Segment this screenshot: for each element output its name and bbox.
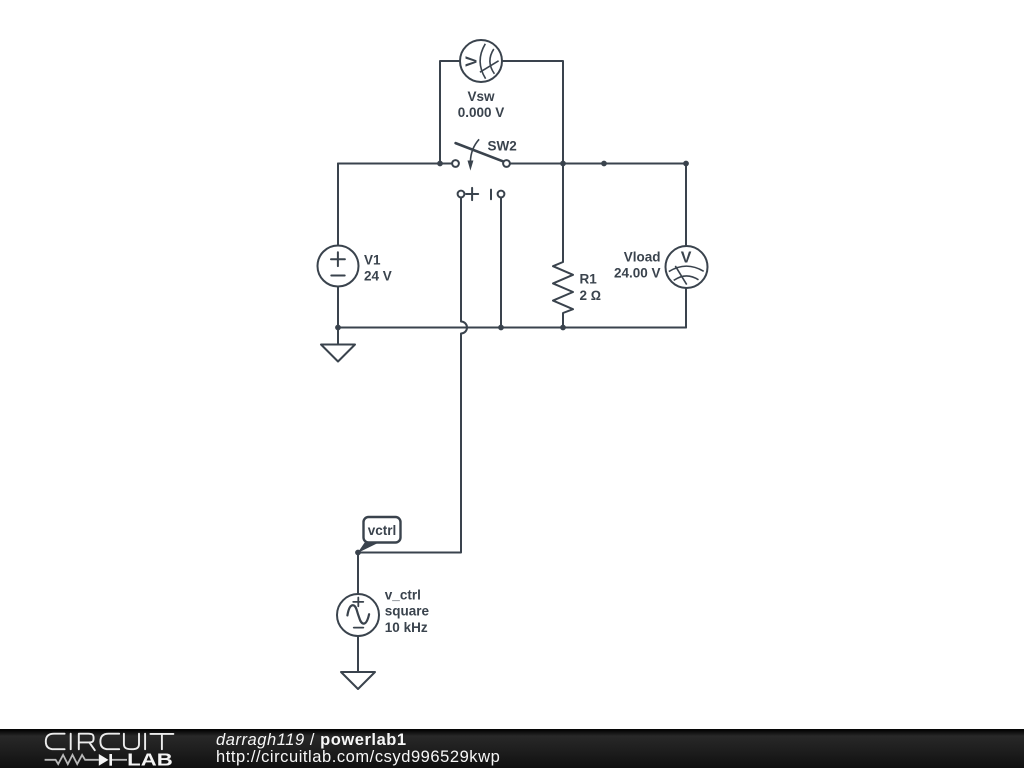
wire: switch plus control down with hop over rail	[358, 197, 467, 552]
footer user info	[216, 732, 500, 765]
node: junction resistor top / main wire	[560, 161, 566, 167]
SW2 minus control terminal	[498, 191, 505, 198]
svg-text:2 Ω: 2 Ω	[580, 288, 602, 303]
svg-text:0.000 V: 0.000 V	[458, 105, 505, 120]
node: junction mid main wire	[601, 161, 607, 167]
voltage source V1	[318, 246, 359, 287]
node: junction minus control / rail	[498, 325, 504, 331]
SW2 control arrow	[470, 139, 479, 161]
logo letter I	[144, 734, 146, 750]
wire: switch minus control down to rail	[500, 197, 502, 327]
svg-text:V1: V1	[364, 252, 381, 267]
svg-text:v_ctrl: v_ctrl	[385, 587, 421, 602]
logo diode	[99, 754, 109, 766]
wire: main horizontal right segment	[510, 163, 686, 165]
wire: bottom horizontal rail	[338, 327, 686, 329]
node: junction resistor bottom / rail	[560, 325, 566, 331]
SW2 left terminal	[452, 160, 459, 167]
resistor R1	[553, 164, 573, 328]
node: junction V1 / rail / ground	[335, 325, 341, 331]
svg-text:SW2: SW2	[488, 139, 517, 154]
voltmeter Vload	[666, 246, 708, 288]
wire: source bottom to ground	[357, 636, 359, 673]
wire: right branch down to Vload	[685, 164, 687, 247]
wire: Vsw left lead to main wire	[440, 61, 460, 164]
svg-text:vctrl: vctrl	[368, 523, 397, 538]
ground (v_ctrl)	[341, 672, 375, 689]
voltmeter Vsw	[460, 40, 502, 82]
v_ctrl sine	[347, 605, 369, 623]
wire: left branch down to V1	[337, 164, 339, 246]
wire: V1 bottom to ground node	[337, 287, 339, 345]
node: vctrl net node	[355, 550, 361, 556]
wire: main horizontal left segment	[338, 163, 452, 165]
svg-text:Vload: Vload	[624, 249, 661, 264]
voltage source v_ctrl	[337, 594, 379, 636]
SW2 blade	[456, 143, 503, 161]
node: corner to Vload	[683, 161, 689, 167]
svg-text:V: V	[464, 56, 481, 67]
logo letter I	[70, 734, 72, 750]
SW2 plus control terminal	[458, 191, 465, 198]
v_ctrl plus	[353, 598, 363, 607]
CircuitLab logo	[0, 729, 200, 768]
net label vctrl flag	[358, 517, 401, 553]
logo letter C	[100, 734, 119, 750]
V1 plus	[331, 252, 345, 266]
SW2 plus marker	[466, 188, 478, 200]
svg-text:10 kHz: 10 kHz	[385, 620, 428, 635]
svg-text:24 V: 24 V	[364, 269, 392, 284]
wire: Vload bottom to rail	[685, 288, 687, 328]
svg-text:R1: R1	[580, 271, 598, 286]
logo letter U	[124, 734, 139, 750]
svg-text:LAB: LAB	[127, 750, 173, 768]
svg-text:24.00 V: 24.00 V	[614, 266, 661, 281]
svg-text:square: square	[385, 604, 430, 619]
v_ctrl minus	[354, 627, 364, 629]
V1 minus	[331, 275, 344, 277]
logo letter T	[150, 734, 173, 749]
svg-text:Vsw: Vsw	[467, 89, 495, 104]
logo resistor-diode wire	[45, 755, 99, 764]
wire: Vsw right lead down to resistor column	[502, 61, 563, 164]
ground (V1)	[321, 345, 355, 362]
switch SW2	[452, 139, 510, 200]
SW2 right terminal	[503, 160, 510, 167]
wire: vctrl node down to source	[357, 553, 359, 595]
logo letter C	[46, 734, 65, 750]
footer bar	[0, 729, 1024, 768]
node: junction Vsw-left / main wire	[437, 161, 443, 167]
svg-text:V: V	[681, 250, 692, 267]
logo letter R	[79, 734, 95, 751]
SW2 minus marker (rotated)	[490, 190, 492, 200]
